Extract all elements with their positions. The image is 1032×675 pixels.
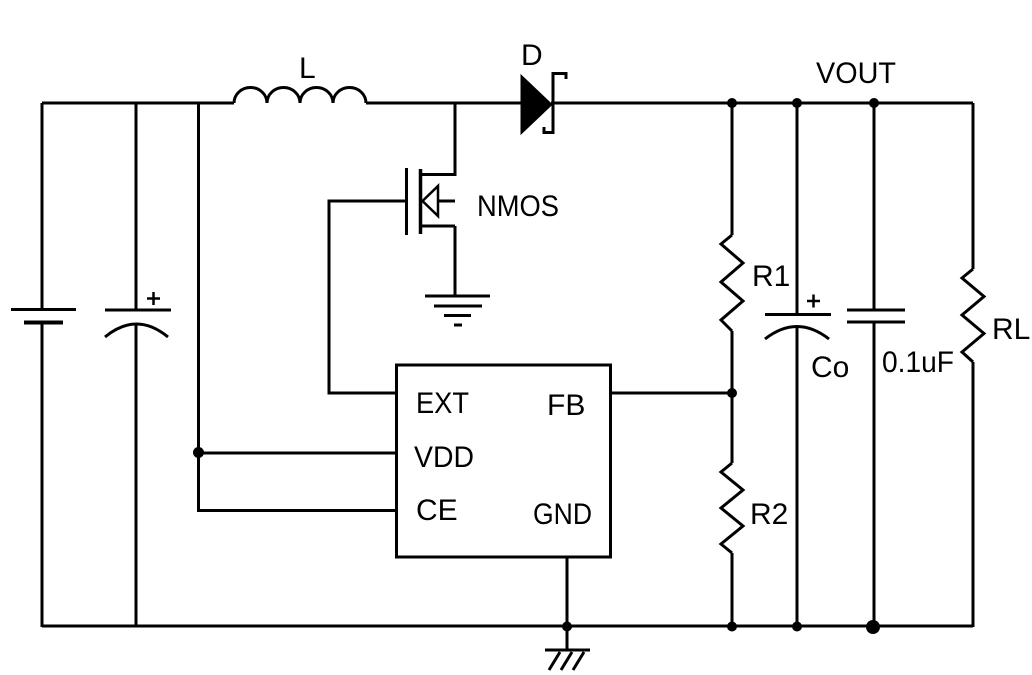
capacitor Cin (electrolytic, input)	[105, 310, 171, 337]
wire: input capacitor branch	[135, 103, 138, 627]
svg-text:L: L	[299, 52, 316, 85]
wire: left rail (battery branch)	[41, 103, 44, 627]
node: Co top junction	[792, 98, 802, 108]
node: 0.1uF top junction	[869, 98, 879, 108]
capacitor C1 0.1uF	[847, 310, 905, 322]
capacitor Co (electrolytic, output)	[765, 315, 831, 340]
svg-text:VOUT: VOUT	[816, 57, 896, 90]
op-amp/IC U1 box	[397, 365, 611, 557]
wire: NMOS source to ground	[454, 226, 457, 296]
wire: bottom ground rail	[42, 625, 973, 628]
svg-text:0.1uF: 0.1uF	[882, 346, 954, 379]
svg-text:VDD: VDD	[414, 441, 474, 474]
ground: chassis ground below bottom rail	[545, 650, 590, 670]
node: FB junction	[727, 388, 737, 398]
node: VDD tee junction	[193, 447, 204, 458]
node: feedback rail bottom junction	[727, 622, 737, 632]
battery V1	[11, 310, 76, 323]
svg-text:D: D	[521, 39, 543, 72]
svg-text:GND: GND	[533, 498, 592, 531]
wire: top rail right segment (diode cathode to right corner)	[551, 102, 973, 105]
wire: VDD/CE rail from top wire	[199, 103, 397, 511]
diode D (Schottky)	[521, 74, 566, 135]
wire: NMOS gate to EXT pin	[329, 201, 406, 393]
wire: FB pin to feedback node	[611, 392, 732, 395]
svg-text:FB: FB	[547, 389, 585, 422]
ground: NMOS source earth ground	[425, 296, 490, 325]
resistor R2	[721, 463, 743, 553]
node: feedback rail top junction	[727, 98, 737, 108]
svg-text:R1: R1	[752, 260, 790, 293]
svg-text:R2: R2	[750, 498, 788, 531]
wire: 0.1uF branch	[873, 103, 876, 627]
wire: top rail left segment (battery to inductor)	[42, 102, 234, 105]
node: GND junction on bottom rail	[562, 622, 572, 632]
svg-text:CE: CE	[416, 494, 458, 527]
transistor Q1 NMOS	[407, 168, 456, 235]
node: 0.1uF bottom junction	[866, 620, 880, 634]
resistor R1	[721, 235, 743, 331]
resistor RL	[962, 269, 984, 362]
wire: Co branch	[796, 103, 799, 627]
label: Cin plus sign	[147, 292, 160, 305]
wire: NMOS drain to top rail	[454, 103, 457, 176]
wire: GND pin down through bottom rail to chassis ground	[566, 557, 569, 650]
wire: VDD pin wire	[199, 452, 397, 455]
wire: R1/R2 feedback rail	[731, 103, 734, 627]
label: Co plus sign	[807, 295, 820, 308]
svg-text:Co: Co	[811, 351, 849, 384]
svg-text:NMOS: NMOS	[477, 190, 559, 223]
svg-text:EXT: EXT	[416, 387, 469, 420]
node: Co bottom junction	[792, 622, 802, 632]
wire: top rail middle segment (inductor to diode anode)	[366, 102, 521, 105]
wire: right rail (RL branch)	[972, 103, 975, 627]
inductor L	[234, 88, 366, 104]
svg-text:RL: RL	[992, 313, 1030, 346]
